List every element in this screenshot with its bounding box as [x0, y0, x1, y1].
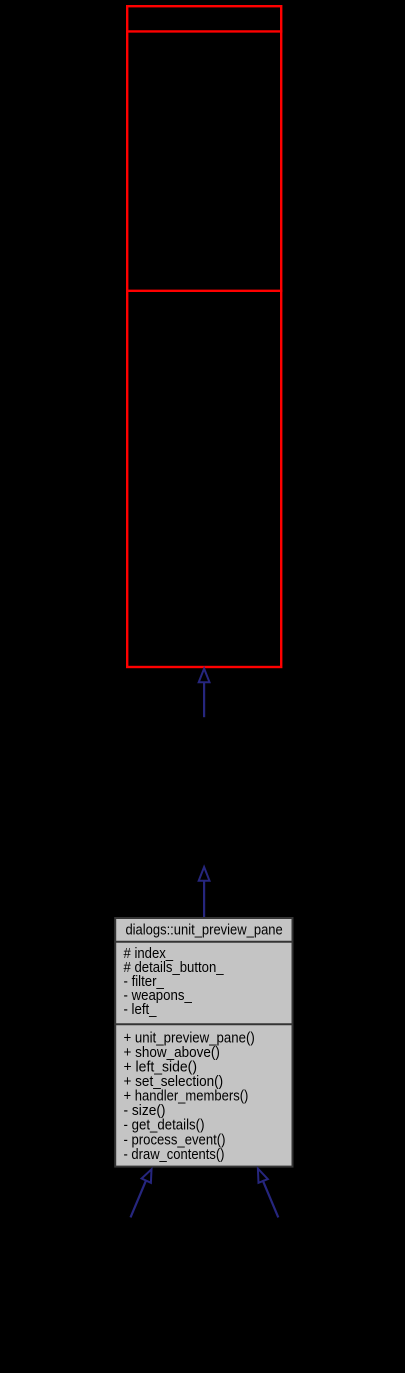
svg-text:- left_: - left_ [124, 1001, 158, 1018]
svg-text:- draw_contents(): - draw_contents() [124, 1146, 225, 1163]
svg-text:dialogs::unit_preview_pane: dialogs::unit_preview_pane [125, 922, 282, 939]
